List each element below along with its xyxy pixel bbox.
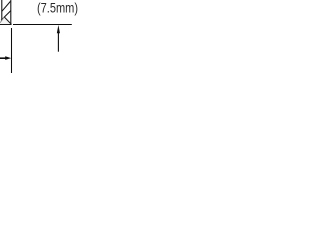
section end triangle fill <box>0 17 11 24</box>
dimension arrow right (tail wire) <box>0 57 7 59</box>
section end triangle right edge <box>4 17 11 24</box>
hatched section bar right edge <box>10 0 12 24</box>
dimension arrow right (head) <box>5 56 11 60</box>
hatch diagonal 1 <box>2 1 10 11</box>
dimension arrow up (head) <box>57 25 60 33</box>
dimension arrow up (tail wire) <box>57 33 59 52</box>
section end triangle left edge <box>0 17 4 23</box>
object edge horizontal line <box>13 24 72 26</box>
hatch diagonal 2 <box>1 11 11 21</box>
section end triangle bottom edge <box>0 24 12 26</box>
hatched section bar left edge <box>1 0 3 20</box>
object edge vertical line <box>11 28 13 73</box>
svg-text:(7.5mm): (7.5mm) <box>37 0 78 15</box>
